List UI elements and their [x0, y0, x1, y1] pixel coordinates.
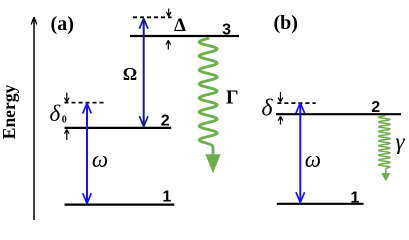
svg-text:1: 1 [162, 188, 171, 205]
delta gap arrow down (b) [278, 92, 283, 102]
svg-text:ω: ω [92, 147, 108, 172]
omega drive arrow (b) [296, 103, 305, 203]
energy axis [31, 17, 37, 220]
svg-text:(b): (b) [273, 12, 297, 34]
delta gap arrow up (b) [278, 116, 283, 124]
svg-text:Δ: Δ [174, 15, 186, 36]
Gamma decay arrowhead [205, 154, 220, 173]
level 1 (a) [65, 204, 175, 206]
svg-text:1: 1 [351, 190, 360, 207]
svg-text:(a): (a) [51, 13, 74, 35]
delta0 gap arrow up (a) [65, 130, 70, 141]
dashed virtual level (b) [277, 102, 315, 104]
level 2 (b) [276, 113, 401, 115]
Delta gap arrow down [166, 9, 171, 17]
svg-text:Γ: Γ [226, 87, 239, 109]
gamma decay coil (b) [379, 116, 390, 174]
delta0 gap arrow down (a) [65, 93, 70, 103]
svg-text:2: 2 [371, 99, 380, 116]
Gamma decay coil [199, 39, 217, 156]
Omega coupling arrow [139, 19, 148, 127]
omega drive arrow (a) [83, 103, 92, 203]
svg-text:ω: ω [305, 147, 321, 172]
dashed virtual level (a) [65, 102, 104, 104]
dashed virtual level above 3 [133, 16, 172, 18]
svg-text:δ: δ [50, 101, 61, 126]
svg-text:δ: δ [261, 95, 273, 121]
svg-text:0: 0 [62, 115, 67, 126]
level 1 (b) [277, 203, 364, 205]
svg-text:2: 2 [161, 112, 170, 129]
svg-text:Energy: Energy [0, 85, 19, 140]
level 3 [130, 35, 239, 37]
level 2 (a) [65, 127, 172, 129]
Delta gap arrow up [166, 40, 171, 49]
gamma decay arrowhead (b) [381, 173, 390, 182]
svg-text:3: 3 [222, 22, 231, 39]
svg-text:Ω: Ω [123, 64, 137, 84]
svg-text:γ: γ [395, 129, 405, 154]
